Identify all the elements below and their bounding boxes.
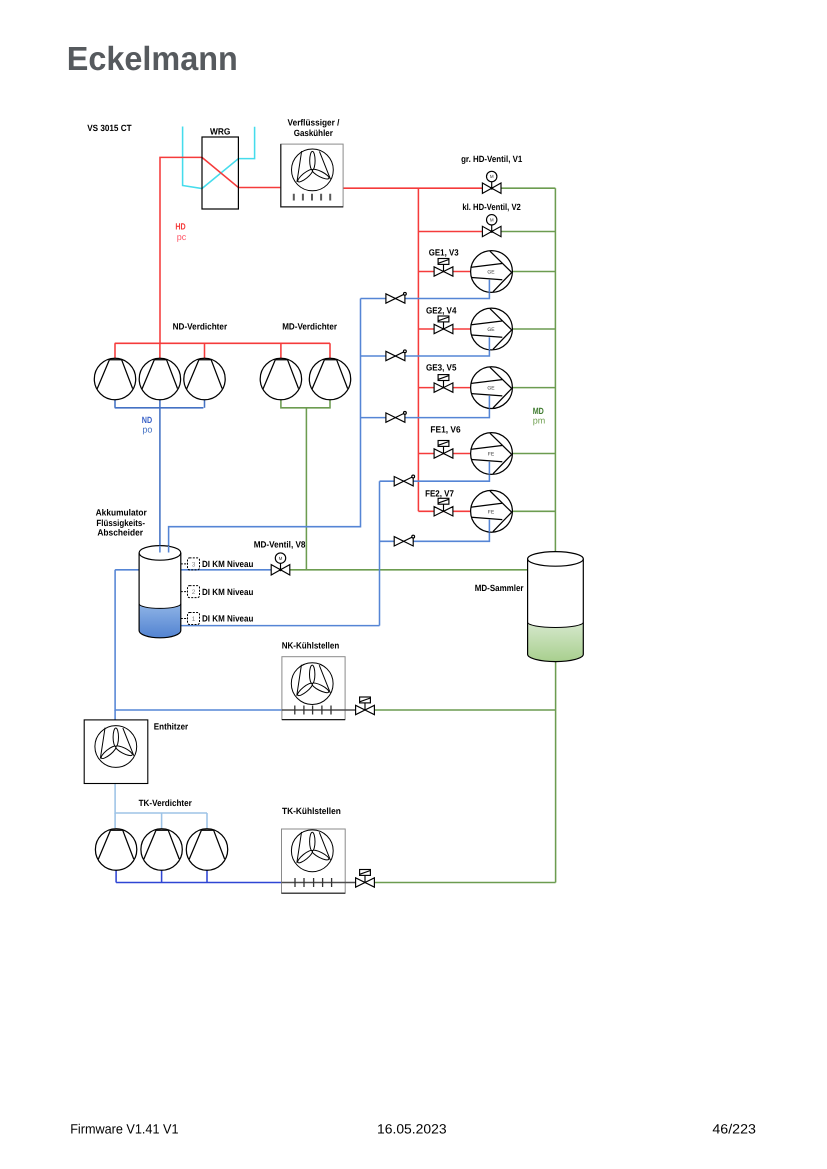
svg-text:GE: GE	[487, 327, 495, 333]
svg-text:MD-Sammler: MD-Sammler	[475, 583, 524, 593]
svg-text:MD-Verdichter: MD-Verdichter	[282, 321, 337, 331]
svg-text:Verflüssiger /: Verflüssiger /	[288, 118, 340, 128]
svg-text:FE1, V6: FE1, V6	[430, 424, 460, 434]
svg-text:WRG: WRG	[210, 127, 230, 137]
svg-text:Gaskühler: Gaskühler	[294, 128, 334, 138]
svg-text:HD: HD	[175, 222, 186, 232]
svg-text:ND-Verdichter: ND-Verdichter	[173, 321, 228, 331]
svg-text:kl. HD-Ventil, V2: kl. HD-Ventil, V2	[462, 202, 521, 212]
svg-text:Akkumulator: Akkumulator	[96, 508, 148, 518]
svg-text:MD-Ventil, V8: MD-Ventil, V8	[254, 539, 306, 549]
svg-text:po: po	[142, 424, 152, 434]
svg-text:GE: GE	[487, 386, 495, 392]
svg-text:FE: FE	[488, 452, 495, 458]
svg-text:Abscheider: Abscheider	[97, 528, 143, 538]
svg-text:DI KM Niveau: DI KM Niveau	[202, 614, 253, 624]
svg-text:DI KM Niveau: DI KM Niveau	[202, 587, 253, 597]
svg-text:MD: MD	[533, 406, 544, 416]
svg-text:1: 1	[192, 616, 196, 623]
svg-text:NK-Kühlstellen: NK-Kühlstellen	[282, 640, 340, 650]
svg-text:16.05.2023: 16.05.2023	[377, 1122, 447, 1137]
svg-text:FE: FE	[488, 509, 495, 515]
svg-text:FE2, V7: FE2, V7	[425, 488, 454, 498]
svg-text:M: M	[490, 174, 494, 179]
svg-text:DI KM Niveau: DI KM Niveau	[202, 559, 253, 569]
svg-text:Eckelmann: Eckelmann	[67, 41, 238, 78]
svg-text:M: M	[279, 556, 283, 561]
svg-text:M: M	[490, 218, 494, 223]
svg-text:VS 3015 CT: VS 3015 CT	[87, 123, 132, 133]
svg-text:Flüssigkeits-: Flüssigkeits-	[96, 518, 145, 528]
svg-text:2: 2	[192, 589, 196, 596]
svg-text:46/223: 46/223	[712, 1122, 756, 1137]
svg-text:3: 3	[192, 561, 196, 568]
svg-text:ND: ND	[142, 415, 153, 425]
svg-text:GE3, V5: GE3, V5	[426, 363, 457, 373]
svg-text:TK-Verdichter: TK-Verdichter	[139, 798, 193, 808]
svg-text:Firmware V1.41 V1: Firmware V1.41 V1	[70, 1122, 178, 1137]
svg-text:pc: pc	[177, 232, 187, 242]
svg-text:GE: GE	[487, 270, 495, 276]
svg-text:gr. HD-Ventil, V1: gr. HD-Ventil, V1	[461, 154, 522, 164]
svg-text:TK-Kühlstellen: TK-Kühlstellen	[282, 806, 341, 816]
svg-text:GE2, V4: GE2, V4	[426, 306, 457, 316]
svg-text:GE1, V3: GE1, V3	[429, 247, 459, 257]
svg-text:Enthitzer: Enthitzer	[154, 722, 189, 732]
svg-text:pm: pm	[533, 416, 546, 426]
